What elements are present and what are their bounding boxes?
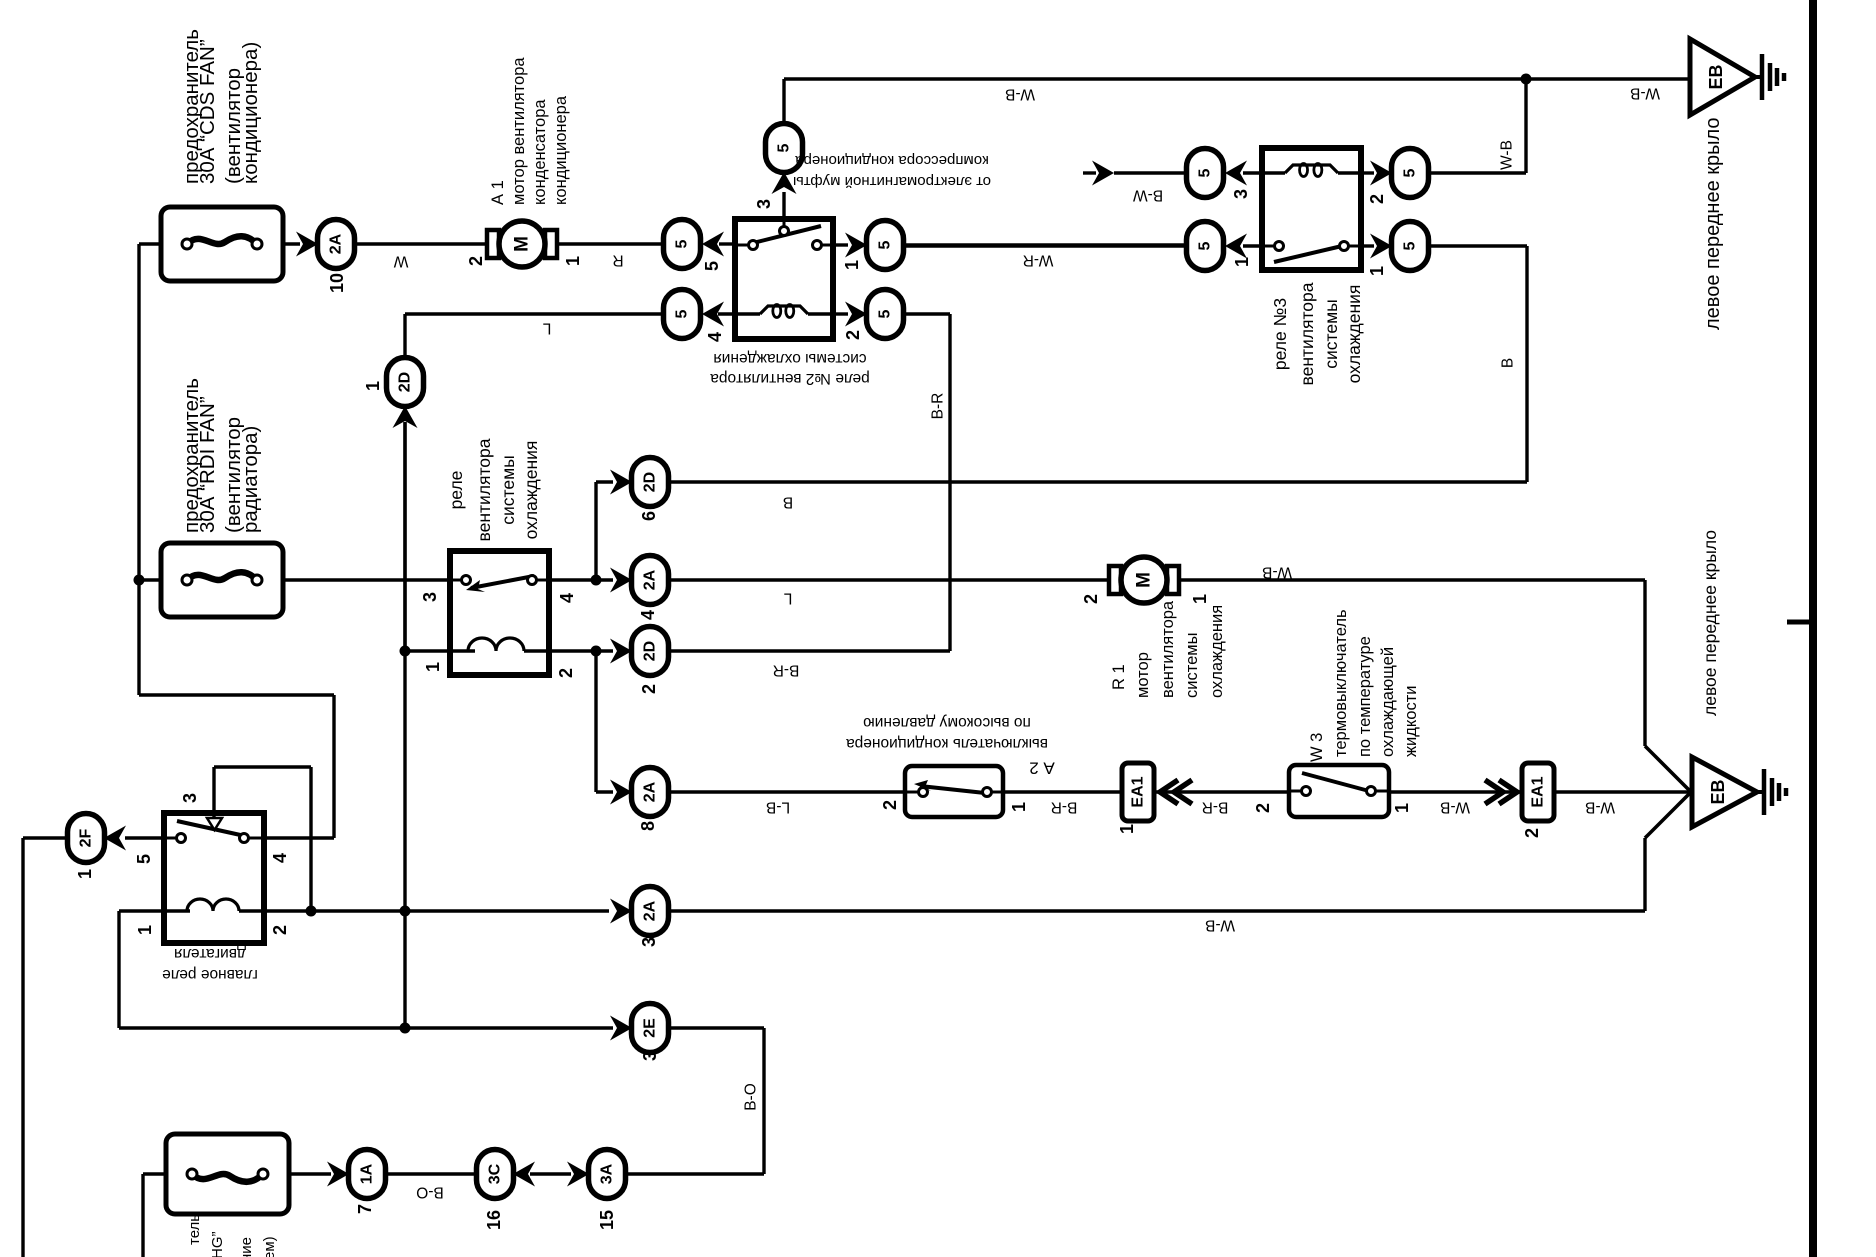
wire B-R to relay2 (668, 649, 950, 652)
svg-text:1: 1 (563, 256, 583, 266)
label cooling fan relay (446, 438, 541, 541)
wire B-W (1114, 171, 1187, 174)
svg-text:W-R: W-R (1023, 252, 1054, 269)
wire main relay pin5 (125, 836, 164, 839)
svg-text:3: 3 (1231, 189, 1251, 199)
wire fan relay pin2 out (549, 649, 613, 652)
svg-text:4: 4 (557, 593, 577, 603)
svg-text:16: 16 (484, 1210, 504, 1230)
svg-text:от электромагнитной муфты: от электромагнитной муфты (793, 173, 991, 190)
connector EA1 no.1 (1122, 763, 1154, 821)
fan relay coil wire (450, 649, 475, 652)
connector arrow (702, 232, 724, 257)
connector 3A pin 15 (589, 1150, 626, 1199)
wire B long run (668, 480, 1527, 483)
svg-text:1: 1 (1117, 824, 1137, 834)
svg-text:кондиционера): кондиционера) (239, 42, 262, 184)
svg-text:5: 5 (1402, 241, 1419, 250)
svg-text:30А “RDI FAN”: 30А “RDI FAN” (196, 396, 219, 533)
motor A1 condenser fan (487, 221, 557, 267)
svg-text:системы: системы (1183, 633, 1201, 698)
svg-text:системы: системы (1321, 299, 1341, 368)
connector arrow 2A-10 (296, 232, 318, 257)
svg-text:30А “CDS FAN”: 30А “CDS FAN” (196, 39, 219, 184)
wire top loop (139, 693, 334, 696)
svg-text:B-R: B-R (1202, 799, 1229, 816)
wire relay3 pin1 right (1361, 244, 1374, 247)
svg-text:L: L (783, 590, 792, 607)
wire to 2D-6 (596, 480, 613, 483)
wire main relay pin2 to 2A-3 (264, 909, 609, 912)
wire 2D-1 node to fan relay pin1 (405, 649, 450, 652)
wire into relay3 pin1 (1243, 244, 1262, 247)
wire W to motor A1 (354, 242, 487, 245)
svg-text:2: 2 (1522, 828, 1542, 838)
svg-text:2: 2 (843, 330, 863, 340)
svg-text:5: 5 (702, 261, 722, 271)
svg-text:2F: 2F (78, 828, 95, 847)
wire L-B to pressure switch (668, 790, 905, 793)
svg-text:5: 5 (134, 854, 154, 864)
label motor A1 (489, 57, 570, 205)
svg-text:B-R: B-R (930, 393, 947, 420)
svg-text:10: 10 (327, 273, 347, 293)
AC pressure switch box A2 (905, 766, 1003, 817)
junction fuses (134, 575, 145, 586)
label fuse RDI FAN (180, 378, 262, 533)
wire fuse CHG to 1A (289, 1172, 331, 1175)
wire W-R relay2 to relay3 (903, 243, 1187, 246)
svg-text:1A: 1A (359, 1163, 376, 1184)
svg-text:4: 4 (705, 332, 725, 342)
svg-text:1: 1 (1232, 257, 1252, 267)
ground EB2 left front fender (1692, 757, 1786, 827)
wire fuse CDS to connector 2A (283, 242, 300, 245)
svg-text:4: 4 (270, 853, 290, 863)
wire relay2 pin4 (718, 312, 735, 315)
svg-text:2A: 2A (642, 781, 659, 802)
svg-text:мотор: мотор (1134, 652, 1152, 698)
svg-text:2: 2 (1081, 594, 1101, 604)
connector 2A pin 3 (632, 887, 669, 936)
wire branch up to 2D-6 (594, 482, 597, 580)
wire L to 2D-1 (405, 312, 664, 315)
connector 5 relay3 pin2 (1392, 149, 1429, 198)
connector 2D pin 1 (387, 358, 424, 407)
connector 2D pin 2 (632, 627, 669, 676)
svg-text:3: 3 (640, 1051, 660, 1061)
svg-text:W-B: W-B (1205, 917, 1235, 934)
svg-text:главное реле: главное реле (162, 966, 258, 983)
fuse 30A RDI FAN (161, 543, 283, 617)
svg-text:M: M (512, 236, 533, 252)
connector 5 relay3 pin3 (1187, 149, 1224, 198)
svg-text:2D: 2D (642, 472, 659, 492)
svg-text:3A: 3A (599, 1163, 616, 1184)
connector chevrons EA1 (1160, 780, 1178, 804)
svg-text:2: 2 (270, 925, 290, 935)
label relay no.2 (710, 350, 870, 387)
wire pin3 jumper down (309, 767, 312, 911)
svg-text:по высокому давлению: по высокому давлению (863, 714, 1031, 731)
relay no.2 switch (749, 226, 822, 250)
relay3 coil wire (1262, 171, 1285, 174)
svg-text:ем): ем) (261, 1236, 278, 1257)
svg-text:ние: ние (238, 1237, 255, 1257)
svg-text:1: 1 (1009, 802, 1029, 812)
svg-text:2: 2 (466, 256, 486, 266)
svg-text:А 1: А 1 (489, 180, 507, 205)
connector 5 relay2 pin2 (867, 290, 904, 339)
connector 2A pin 8 (632, 768, 669, 817)
svg-text:5: 5 (1402, 168, 1419, 177)
junction pin2 (591, 646, 602, 657)
svg-text:8: 8 (638, 821, 658, 831)
motor R1 cooling fan (1109, 557, 1179, 603)
wire down to page edge 2 (141, 1174, 144, 1257)
junction x405 y911 (400, 906, 411, 917)
cooling fan relay switch (462, 576, 537, 593)
svg-text:5: 5 (877, 309, 894, 318)
svg-text:W-B: W-B (1630, 85, 1660, 102)
svg-text:1: 1 (75, 869, 95, 879)
svg-text:2E: 2E (642, 1018, 659, 1038)
wire relay3 pin2 (1361, 171, 1374, 174)
wire 2D-1 node down (403, 422, 406, 1028)
wire coil node to 2E (119, 1026, 613, 1029)
wire into relay2 pin5 (719, 242, 735, 245)
wire 2F left (23, 836, 68, 839)
wire diagonal to ground (1645, 746, 1690, 791)
svg-text:термовыключатель: термовыключатель (1332, 609, 1350, 757)
svg-text:5: 5 (1197, 168, 1214, 177)
svg-text:мотор вентилятора: мотор вентилятора (510, 57, 528, 205)
svg-text:1: 1 (842, 260, 862, 270)
wire down to 2D-1 (403, 314, 406, 359)
connector 2A pin 4 (632, 556, 669, 605)
svg-text:B: B (783, 494, 793, 511)
svg-text:L: L (542, 320, 551, 337)
svg-text:B-W: B-W (1133, 187, 1164, 204)
wire B-R EA1 to thermo switch (1154, 790, 1289, 793)
junction pin4 (591, 575, 602, 586)
svg-text:15: 15 (597, 1210, 617, 1230)
wire relay2-relay3 bottom (905, 244, 1187, 247)
svg-text:3: 3 (420, 592, 440, 602)
svg-text:2: 2 (1253, 803, 1273, 813)
main relay coil (187, 899, 239, 911)
svg-text:вентилятора: вентилятора (1297, 282, 1317, 385)
svg-text:2: 2 (1367, 194, 1387, 204)
svg-text:W 3: W 3 (1308, 733, 1326, 762)
connector 5 relay3 pin1 left (1187, 222, 1224, 271)
relay2 coil wire (735, 312, 760, 315)
svg-text:L-B: L-B (766, 799, 790, 816)
wire B down (1525, 246, 1528, 482)
svg-text:EA1: EA1 (1130, 776, 1147, 807)
wire diagonal from below (1645, 793, 1690, 838)
label thermo switch W3 (1308, 609, 1420, 762)
svg-text:3: 3 (180, 793, 200, 803)
svg-text:выключатель кондиционера: выключатель кондиционера (846, 735, 1048, 752)
wire B-R right (903, 312, 950, 315)
label fuse CDS FAN (180, 29, 262, 184)
main relay coil wire (164, 909, 190, 912)
connector 5 relay2 pin4 (664, 290, 701, 339)
pressure switch contacts (914, 780, 992, 797)
connector 2F pin 1 (68, 814, 105, 863)
connector arrow up (393, 406, 418, 428)
connector arrow up (772, 172, 797, 194)
wire B-R down (948, 314, 951, 651)
wire into relay3 pin3 (1243, 171, 1262, 174)
svg-text:W: W (393, 253, 408, 270)
svg-text:2A: 2A (328, 233, 345, 254)
label fuse CHG fragments (186, 1214, 278, 1257)
svg-text:тель: тель (186, 1214, 203, 1245)
svg-text:W-B: W-B (1440, 799, 1470, 816)
svg-text:системы: системы (498, 455, 518, 524)
svg-text:А 2: А 2 (1029, 759, 1055, 778)
connector EA1 no.2 (1522, 763, 1554, 821)
svg-text:EB: EB (1706, 64, 1726, 89)
wire B-R to EA1 (1003, 790, 1122, 793)
svg-text:конденсатора: конденсатора (531, 99, 549, 205)
svg-text:EA1: EA1 (1530, 776, 1547, 807)
svg-text:2D: 2D (397, 372, 414, 392)
wire W-B motor R1 to ground (1179, 578, 1645, 581)
fuse CHG bottom (166, 1134, 289, 1214)
svg-text:B-O: B-O (743, 1083, 760, 1111)
svg-text:левое переднее крыло: левое переднее крыло (1700, 530, 1720, 716)
main engine relay box (164, 813, 264, 943)
thermo switch W3 box (1289, 765, 1389, 817)
connector 5 relay2 pin3 (766, 124, 803, 173)
wire W-B up (1524, 79, 1527, 173)
connector 5 relay3 pin1 right (1392, 222, 1429, 271)
wire W-B up from y911 (1643, 838, 1646, 911)
relay no.3 cooling fan box (1262, 148, 1361, 270)
svg-text:охлаждения: охлаждения (1344, 285, 1364, 384)
connector 2D pin 6 (632, 458, 669, 507)
svg-text:5: 5 (877, 240, 894, 249)
svg-text:2D: 2D (642, 641, 659, 661)
svg-text:1: 1 (1367, 266, 1387, 276)
svg-text:системы охлаждения: системы охлаждения (713, 350, 866, 367)
wire relay2 pin1 (833, 243, 848, 246)
svg-text:3C: 3C (487, 1163, 504, 1184)
wire relay2 pin2 (833, 312, 848, 315)
connector 2A pin 10 (318, 220, 355, 269)
wire down to page edge (21, 838, 24, 1257)
svg-text:1: 1 (1190, 594, 1210, 604)
wire 3C to 3A (530, 1172, 571, 1175)
svg-text:5: 5 (674, 239, 691, 248)
svg-text:3: 3 (754, 199, 774, 209)
svg-text:W-B: W-B (1005, 86, 1035, 103)
svg-text:реле №3: реле №3 (1270, 298, 1290, 370)
svg-text:левое переднее крыло: левое переднее крыло (1702, 117, 1724, 330)
svg-text:3: 3 (639, 937, 659, 947)
svg-text:двигателя: двигателя (174, 945, 246, 962)
svg-text:2: 2 (880, 800, 900, 810)
svg-text:1: 1 (1392, 803, 1412, 813)
wire B-O vertical (762, 1028, 765, 1174)
wire to fuse RDI (139, 578, 161, 581)
wire 2D-1 down (403, 422, 406, 651)
wire up to W-B run (782, 79, 785, 124)
svg-text:R: R (612, 252, 623, 269)
svg-text:HG”: HG” (209, 1232, 226, 1257)
wire to 2A-8 (596, 790, 613, 793)
wire B-O to 3C (385, 1172, 477, 1175)
thermo switch contacts (1302, 773, 1376, 796)
wire main relay pin3 up (212, 767, 215, 818)
relay no.3 switch (1274, 242, 1349, 263)
svg-text:EB: EB (1708, 779, 1728, 804)
svg-text:2: 2 (556, 668, 576, 678)
svg-text:R 1: R 1 (1110, 664, 1128, 690)
fan relay coil (468, 638, 524, 651)
wire fan relay pin4 out (549, 578, 613, 581)
connector 3C pin 16 (477, 1150, 514, 1199)
wire stub compressor (1083, 171, 1096, 174)
wire pin1 down (117, 911, 120, 1028)
svg-text:2: 2 (639, 684, 659, 694)
main relay switch (177, 818, 249, 843)
wire fuse CHG left (143, 1172, 166, 1175)
wire relay2 pin3 up (782, 192, 785, 219)
wire fuse RDI to relay (283, 578, 450, 581)
svg-text:B-R: B-R (1051, 799, 1078, 816)
wire fuse CDS left (139, 242, 161, 245)
svg-text:компрессора кондиционера: компрессора кондиционера (795, 152, 989, 169)
wire pin4 up (332, 695, 335, 838)
svg-text:B-R: B-R (773, 662, 800, 679)
connector 1A pin 7 (349, 1150, 386, 1199)
label from AC compressor clutch (793, 152, 991, 190)
relay no.2 cooling fan box (735, 219, 833, 339)
junction pin3-pin2 (306, 906, 317, 917)
svg-text:6: 6 (639, 511, 659, 521)
wire W-B thermo to EA1 (1389, 790, 1522, 793)
svg-text:охлаждения: охлаждения (1208, 605, 1226, 698)
svg-text:1: 1 (135, 925, 155, 935)
wire 2E right (668, 1026, 764, 1029)
wire B right (1428, 244, 1527, 247)
svg-text:5: 5 (674, 309, 691, 318)
wire W-B to ground EB (784, 77, 1688, 80)
junction W-B (1521, 74, 1532, 85)
fuse 30A CDS FAN (161, 207, 283, 281)
wire branch down to 2A-8 (594, 651, 597, 792)
svg-text:B: B (1500, 358, 1517, 368)
wire L to motor R1 (668, 578, 1110, 581)
wire W-B right (1428, 171, 1526, 174)
svg-text:W-B: W-B (1262, 564, 1292, 581)
connector 2E pin 3 (632, 1004, 669, 1053)
svg-text:2A: 2A (642, 569, 659, 590)
svg-text:W-B: W-B (1499, 140, 1516, 170)
wire fuse CDS down left (137, 244, 140, 695)
svg-text:охлаждения: охлаждения (521, 441, 541, 540)
svg-text:жидкости: жидкости (1402, 686, 1420, 758)
svg-text:1: 1 (423, 662, 443, 672)
ground EB left front fender (1690, 39, 1784, 115)
svg-text:по температуре: по температуре (1356, 636, 1374, 757)
svg-text:охлаждающей: охлаждающей (1379, 647, 1397, 757)
label main relay (162, 945, 258, 983)
svg-text:вентилятора: вентилятора (1159, 600, 1177, 698)
label motor R1 (1110, 600, 1226, 698)
svg-text:радиатора): радиатора) (239, 426, 262, 533)
svg-text:5: 5 (776, 143, 793, 152)
svg-text:5: 5 (1197, 241, 1214, 250)
wire 3A right (625, 1172, 764, 1175)
junction 2D-1 node (400, 646, 411, 657)
wire R motor A1 to relay2 (557, 242, 663, 245)
label pressure switch (846, 714, 1048, 752)
svg-text:1: 1 (363, 381, 383, 391)
wire W-B to ground EB2 (1554, 790, 1690, 793)
wire W-B long to ground (668, 909, 1645, 912)
svg-text:W-B: W-B (1585, 799, 1615, 816)
svg-text:реле №2 вентилятора: реле №2 вентилятора (710, 370, 870, 387)
cooling fan relay box (450, 551, 549, 675)
wire W-B down (1643, 580, 1646, 746)
svg-text:M: M (1134, 572, 1155, 588)
svg-text:4: 4 (638, 610, 658, 620)
wire main relay pin4 (264, 836, 334, 839)
label relay no.3 (1270, 282, 1364, 385)
page border right edge (1809, 0, 1817, 1257)
connector 5 relay2 pin5 (664, 220, 701, 269)
connector 5 relay2 pin1 (867, 221, 904, 270)
arrow from compressor clutch (1092, 161, 1114, 186)
junction y1028 (400, 1023, 411, 1034)
svg-text:вентилятора: вентилятора (474, 438, 494, 541)
connector chevrons EA1 no2 (1499, 780, 1517, 804)
wire pin3 jumper top (214, 765, 311, 768)
svg-text:2A: 2A (642, 900, 659, 921)
svg-text:кондиционера: кондиционера (552, 95, 570, 205)
svg-text:реле: реле (446, 471, 466, 510)
wire main relay pin1 (119, 909, 164, 912)
svg-text:7: 7 (355, 1204, 375, 1214)
svg-text:B-O: B-O (416, 1184, 444, 1201)
